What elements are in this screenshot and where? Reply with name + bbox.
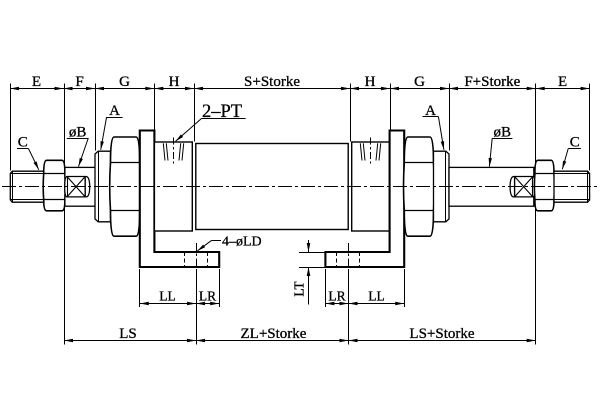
mounting hole left (4-øLD)	[184, 252, 186, 267]
svg-text:4–øLD: 4–øLD	[222, 234, 262, 249]
svg-text:ZL+Storke: ZL+Storke	[241, 326, 307, 342]
label A right	[438, 117, 444, 150]
label øB left	[79, 138, 89, 167]
LT dim lines	[308, 240, 310, 252]
extension line x=589.6	[589, 84, 591, 171]
LT extension lines	[299, 252, 325, 254]
wrench flats right	[510, 177, 535, 197]
cylinder head right	[352, 142, 390, 231]
extension line x=350	[350, 84, 352, 142]
mounting nut left	[110, 137, 141, 236]
svg-text:LT: LT	[292, 281, 307, 297]
piston rod left	[65, 167, 96, 206]
mounting nut right	[404, 137, 435, 236]
bottom dim arrows	[64, 339, 73, 343]
top dimension line	[10, 88, 590, 90]
extension line x=449	[449, 84, 451, 151]
extension line x=95	[95, 84, 97, 151]
rod nut right	[534, 160, 554, 211]
LL/LR arrows left	[140, 302, 149, 306]
extension line x=64	[64, 84, 66, 345]
svg-text:E: E	[558, 74, 567, 90]
main centerline	[2, 186, 598, 188]
svg-text:2–PT: 2–PT	[202, 102, 242, 122]
svg-text:G: G	[414, 74, 425, 90]
label C right	[562, 149, 568, 170]
svg-text:LL: LL	[159, 289, 176, 304]
svg-text:C: C	[18, 134, 28, 150]
svg-text:A: A	[109, 103, 120, 119]
svg-text:LR: LR	[199, 289, 216, 304]
mounting hole right (4-øLD)	[336, 252, 338, 267]
piston rod right (B)	[449, 167, 534, 206]
extension line x=154.3	[154, 84, 156, 131]
cylinder barrel	[196, 144, 348, 230]
label A left	[101, 117, 107, 150]
foot bracket right	[325, 131, 404, 268]
port 2-PT right	[370, 138, 372, 164]
extension line x=404.2	[404, 269, 406, 307]
svg-text:S+Storke: S+Storke	[244, 74, 300, 90]
extension line x=139.8	[139, 269, 141, 307]
label 4-øLD	[211, 240, 221, 242]
foot bracket left	[140, 131, 219, 268]
extension line x=348.5	[348, 272, 350, 345]
extension line x=194	[194, 84, 196, 142]
label øB right	[489, 138, 492, 166]
svg-text:LS: LS	[119, 326, 137, 342]
extension line x=10	[10, 84, 12, 171]
rod collar left (A)	[95, 151, 111, 222]
rod nut left	[43, 160, 65, 211]
bottom dimension line	[64, 340, 536, 342]
extension line x=219.2	[219, 269, 221, 307]
top dim arrows	[10, 87, 19, 91]
svg-text:LR: LR	[328, 289, 345, 304]
extension line x=390	[390, 84, 392, 131]
svg-text:LL: LL	[368, 289, 385, 304]
cylinder head left	[154, 142, 192, 231]
wrench flats left	[65, 177, 90, 197]
svg-text:H: H	[365, 74, 376, 90]
svg-text:F+Storke: F+Storke	[464, 74, 520, 90]
label C left	[28, 149, 38, 170]
port 2-PT left	[173, 138, 175, 164]
svg-text:H: H	[169, 74, 180, 90]
extension line x=325.4	[325, 269, 327, 307]
svg-text:C: C	[570, 135, 580, 151]
svg-text:F: F	[75, 74, 83, 90]
extension line x=535.7	[535, 84, 537, 345]
label 2-PT	[176, 118, 202, 141]
LR/LL dim line right	[325, 303, 404, 305]
svg-text:G: G	[119, 74, 130, 90]
threaded rod end right (C)	[554, 171, 590, 202]
threaded rod end left (C)	[10, 171, 44, 202]
extension line x=196	[196, 272, 198, 345]
svg-text:E: E	[32, 74, 41, 90]
svg-text:LS+Storke: LS+Storke	[409, 326, 474, 342]
rod collar right (A)	[434, 151, 450, 222]
svg-text:A: A	[425, 103, 436, 119]
LT arrows	[307, 243, 311, 252]
LL/LR dim line left	[140, 303, 219, 305]
svg-text:øB: øB	[494, 124, 512, 140]
LR/LL arrows right	[325, 302, 334, 306]
svg-text:øB: øB	[69, 124, 87, 140]
